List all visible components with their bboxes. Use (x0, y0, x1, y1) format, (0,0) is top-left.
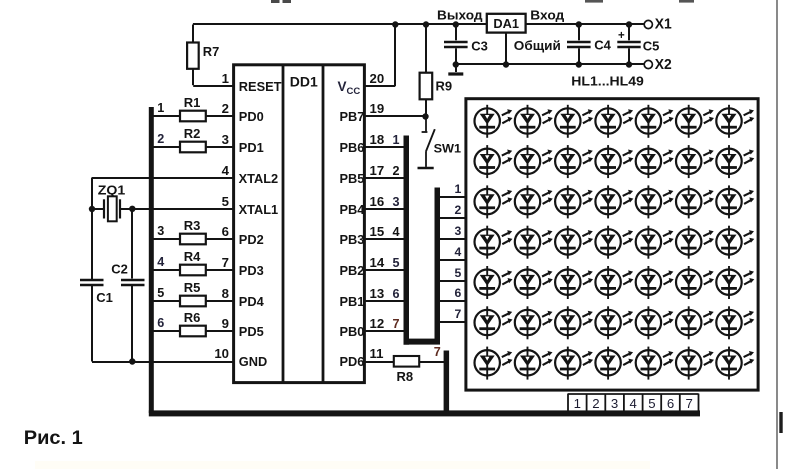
LED HL34 (676, 266, 714, 299)
node pin20-rail junction (392, 21, 398, 27)
LED HL20 (676, 185, 714, 218)
wire row 6 to LED matrix (440, 300, 467, 302)
LED HL25 (595, 226, 633, 259)
LED HL46 (595, 347, 633, 380)
resistor R6 (180, 310, 206, 336)
svg-text:+: + (618, 30, 625, 42)
LED HL45 (555, 347, 593, 380)
svg-text:17: 17 (370, 163, 385, 178)
wire R3 to chip (206, 238, 233, 240)
bus bar A (vertical bundle) (404, 136, 410, 345)
svg-text:6: 6 (393, 287, 400, 301)
svg-text:3: 3 (222, 132, 229, 147)
LED HL1 (475, 105, 513, 138)
wire XTAL1 net (92, 208, 233, 210)
resistor R5 (180, 280, 206, 306)
svg-text:R5: R5 (184, 280, 201, 295)
svg-text:R8: R8 (397, 369, 414, 384)
terminal divider 5 (660, 394, 662, 412)
capacitor C3 (444, 25, 488, 65)
LED HL42 (716, 306, 754, 339)
page column rule (scan artifact) (777, 0, 783, 469)
svg-text:Рис. 1: Рис. 1 (24, 428, 83, 449)
LED HL21 (716, 185, 754, 218)
resistor R7 (187, 25, 219, 69)
svg-text:3: 3 (157, 224, 164, 238)
LED HL29 (475, 266, 513, 299)
svg-text:C4: C4 (594, 38, 611, 53)
node C3-common junction (453, 61, 459, 67)
LED HL41 (676, 306, 714, 339)
resistor R4 (180, 249, 206, 275)
LED HL43 (475, 347, 513, 380)
svg-text:11: 11 (370, 346, 384, 361)
LED HL27 (676, 226, 714, 259)
wire pin 11 PD6 (364, 361, 394, 363)
svg-text:18: 18 (370, 132, 385, 147)
svg-text:PB6: PB6 (340, 140, 365, 155)
svg-text:15: 15 (370, 224, 385, 239)
wire PB3 stub to bundle (364, 238, 405, 240)
resistor R8 (394, 356, 419, 384)
wire pin 19 PB7 (364, 115, 426, 117)
svg-text:R6: R6 (184, 310, 201, 325)
svg-text:1: 1 (574, 396, 581, 411)
svg-text:6: 6 (222, 224, 229, 239)
wire XTAL2 net (92, 178, 233, 280)
wire R7 to RESET pin 1 (193, 69, 233, 86)
LED HL5 (636, 105, 674, 138)
terminal X1 (644, 16, 672, 33)
ground symbol (448, 65, 463, 75)
LED HL39 (595, 306, 633, 339)
LED HL33 (636, 266, 674, 299)
terminal divider 6 (679, 394, 681, 412)
svg-text:PD0: PD0 (239, 109, 264, 124)
svg-text:ZQ1: ZQ1 (98, 183, 126, 198)
svg-text:R2: R2 (184, 126, 201, 141)
node R9-rail junction (423, 21, 429, 27)
svg-text:2: 2 (222, 101, 229, 116)
svg-text:PB5: PB5 (340, 171, 365, 186)
wire net 2 from bus to R2 (154, 146, 181, 148)
crystal ZQ1 (98, 183, 126, 222)
svg-text:4: 4 (393, 225, 400, 239)
svg-text:DD1: DD1 (290, 74, 318, 90)
LED HL36 (475, 306, 513, 339)
svg-text:DA1: DA1 (493, 16, 519, 31)
svg-text:Общий: Общий (514, 38, 561, 53)
LED HL28 (716, 226, 754, 259)
svg-text:2: 2 (592, 396, 599, 411)
wire net 4 from bus to R4 (154, 269, 181, 271)
LED HL7 (716, 105, 754, 138)
svg-text:10: 10 (214, 346, 229, 361)
terminal strip divider (698, 394, 700, 412)
svg-text:C3: C3 (471, 39, 488, 54)
svg-text:PD1: PD1 (239, 140, 264, 155)
svg-text:8: 8 (222, 286, 229, 301)
svg-text:R3: R3 (184, 218, 201, 233)
LED HL11 (595, 145, 633, 178)
LED HL48 (676, 347, 714, 380)
LED HL26 (636, 226, 674, 259)
LED HL22 (475, 226, 513, 259)
harness bottom run (149, 410, 700, 416)
svg-text:X1: X1 (655, 16, 672, 33)
svg-text:13: 13 (370, 286, 385, 301)
svg-text:5: 5 (222, 194, 229, 209)
svg-text:PB0: PB0 (340, 324, 365, 339)
LED HL19 (636, 185, 674, 218)
resistor R1 (180, 95, 206, 121)
wire common bottom rail (456, 63, 644, 65)
svg-text:5: 5 (455, 266, 462, 280)
LED HL14 (716, 145, 754, 178)
svg-text:16: 16 (370, 194, 385, 209)
LED HL8 (475, 145, 513, 178)
LED HL9 (515, 145, 553, 178)
LED HL32 (595, 266, 633, 299)
svg-text:2: 2 (157, 132, 164, 146)
node C2-GND junction (129, 358, 135, 364)
terminal divider 1 (586, 394, 588, 412)
LED HL17 (555, 185, 593, 218)
LED HL35 (716, 266, 754, 299)
wire PB2 stub to bundle (364, 269, 405, 271)
svg-text:7: 7 (685, 396, 692, 411)
svg-text:Выход: Выход (437, 7, 483, 22)
wire row 3 to LED matrix (440, 238, 467, 240)
cropped text remnants at top edge (271, 0, 694, 3)
svg-text:X2: X2 (655, 56, 672, 73)
wire row 7 to LED matrix (440, 321, 467, 323)
LED HL12 (636, 145, 674, 178)
LED HL6 (676, 105, 714, 138)
wire R1 to chip (206, 115, 233, 117)
terminal X2 (644, 56, 672, 73)
LED HL13 (676, 145, 714, 178)
resistor R9 (420, 25, 453, 117)
svg-text:PD5: PD5 (239, 324, 264, 339)
wire R4 to chip (206, 269, 233, 271)
LED HL38 (555, 306, 593, 339)
LED HL31 (555, 266, 593, 299)
wire PB6 stub to bundle (364, 146, 405, 148)
LED HL24 (555, 226, 593, 259)
LED HL23 (515, 226, 553, 259)
svg-text:1: 1 (455, 182, 462, 196)
svg-text:R4: R4 (184, 249, 201, 264)
node PB7-R9-SW1 junction (422, 113, 428, 119)
terminal divider 3 (623, 394, 625, 412)
wire PB1 stub to bundle (364, 300, 405, 302)
LED HL2 (515, 105, 553, 138)
svg-text:XTAL2: XTAL2 (239, 171, 279, 186)
LED HL3 (555, 105, 593, 138)
bus bundle bottom link (404, 339, 441, 345)
svg-text:SW1: SW1 (434, 142, 462, 156)
wire R6 to chip (206, 330, 233, 332)
svg-text:1: 1 (157, 101, 164, 115)
LED matrix box (466, 99, 758, 390)
wire DA1 common to rail (505, 33, 507, 65)
svg-text:PD2: PD2 (239, 232, 264, 247)
faint print band at bottom (scan artifact) (35, 461, 650, 469)
svg-text:2: 2 (455, 203, 462, 217)
svg-text:PD6: PD6 (340, 354, 365, 369)
svg-text:PD3: PD3 (239, 263, 264, 278)
wire PB4 stub to bundle (364, 208, 405, 210)
svg-text:3: 3 (393, 195, 400, 209)
wire row 4 to LED matrix (440, 259, 467, 261)
resistor R3 (180, 218, 206, 244)
LED HL44 (515, 347, 553, 380)
terminal divider 2 (604, 394, 606, 412)
svg-text:PB7: PB7 (340, 109, 365, 124)
svg-text:XTAL1: XTAL1 (239, 202, 279, 217)
node DA1-common junction (503, 61, 509, 67)
node C4-rail junction (576, 21, 582, 27)
resistor R2 (180, 126, 206, 152)
svg-text:3: 3 (455, 224, 462, 238)
svg-text:4: 4 (157, 255, 164, 269)
svg-text:6: 6 (455, 286, 462, 300)
terminal divider 4 (642, 394, 644, 412)
wire row 2 to LED matrix (440, 217, 467, 219)
svg-text:1: 1 (222, 71, 229, 86)
wire GND net (92, 361, 233, 363)
bus bar left (harness) (149, 107, 154, 413)
svg-text:1: 1 (393, 133, 400, 147)
LED HL49 (716, 347, 754, 380)
svg-text:HL1...HL49: HL1...HL49 (571, 74, 644, 89)
node XTAL2-C1 junction (89, 206, 95, 212)
wire net 3 from bus to R3 (154, 238, 181, 240)
svg-text:R1: R1 (184, 95, 201, 110)
svg-text:C2: C2 (111, 262, 128, 277)
svg-text:2: 2 (393, 164, 400, 178)
wire PB0 stub to bundle (364, 330, 405, 332)
svg-text:GND: GND (239, 354, 267, 369)
svg-text:RESET: RESET (239, 79, 282, 94)
svg-text:R9: R9 (436, 79, 453, 94)
node C5-rail junction (626, 21, 632, 27)
svg-text:4: 4 (630, 396, 637, 411)
LED HL10 (555, 145, 593, 178)
wire PB5 stub to bundle (364, 177, 405, 179)
svg-text:20: 20 (370, 71, 385, 86)
svg-text:PB4: PB4 (340, 202, 366, 217)
svg-text:4: 4 (455, 245, 462, 259)
svg-text:PB1: PB1 (340, 294, 365, 309)
svg-text:4: 4 (222, 163, 230, 178)
node C5-common junction (626, 61, 632, 67)
net 7 drop bar to harness (444, 351, 450, 414)
wire row 1 to LED matrix (440, 196, 467, 198)
node XTAL1-C2 junction (129, 206, 135, 212)
op-amp/mcu DD1 body (234, 65, 365, 383)
bus bar B (vertical bundle) (435, 188, 441, 341)
svg-text:5: 5 (648, 396, 655, 411)
node C3-rail junction (453, 21, 459, 27)
capacitor C5 electrolytic (617, 25, 659, 65)
LED HL40 (636, 306, 674, 339)
wire R2 to chip (206, 146, 233, 148)
capacitor C4 (567, 25, 612, 65)
wire net 5 from bus to R5 (154, 300, 181, 302)
wire R8 to net 7 bar (419, 361, 444, 363)
svg-text:7: 7 (393, 317, 400, 331)
svg-text:PB3: PB3 (340, 232, 365, 247)
wire net 1 from bus to R1 (154, 115, 181, 117)
svg-text:7: 7 (455, 307, 462, 321)
svg-text:Вход: Вход (530, 7, 565, 22)
svg-text:12: 12 (370, 316, 385, 331)
svg-text:14: 14 (370, 255, 385, 270)
svg-text:7: 7 (434, 345, 441, 359)
svg-text:19: 19 (370, 101, 385, 116)
svg-text:6: 6 (667, 396, 674, 411)
svg-text:R7: R7 (203, 44, 220, 59)
wire R5 to chip (206, 300, 233, 302)
switch SW1 (418, 117, 462, 169)
LED HL4 (595, 105, 633, 138)
capacitor C2 (111, 209, 144, 362)
LED HL47 (636, 347, 674, 380)
wire net 6 from bus to R6 (154, 330, 181, 332)
voltage regulator DA1 (487, 14, 526, 33)
wire VCC top rail (193, 23, 644, 25)
svg-text:C5: C5 (643, 39, 660, 54)
LED HL18 (595, 185, 633, 218)
matrix column terminal strip top border (568, 393, 699, 395)
node C4-common junction (576, 61, 582, 67)
svg-text:C1: C1 (96, 290, 113, 305)
svg-text:PD4: PD4 (239, 294, 265, 309)
wire pin 20 VCC to rail (364, 25, 395, 87)
LED HL15 (475, 185, 513, 218)
capacitor C1 (80, 280, 113, 362)
wire row 5 to LED matrix (440, 280, 467, 282)
svg-text:9: 9 (222, 316, 229, 331)
LED HL16 (515, 185, 553, 218)
svg-text:6: 6 (157, 316, 164, 330)
LED HL37 (515, 306, 553, 339)
svg-text:5: 5 (157, 286, 164, 300)
LED HL30 (515, 266, 553, 299)
svg-text:7: 7 (222, 255, 229, 270)
svg-text:5: 5 (393, 256, 400, 270)
terminal strip divider (567, 394, 569, 412)
svg-text:PB2: PB2 (340, 263, 365, 278)
svg-text:3: 3 (611, 396, 618, 411)
